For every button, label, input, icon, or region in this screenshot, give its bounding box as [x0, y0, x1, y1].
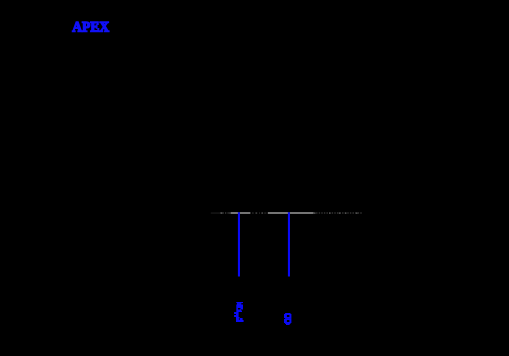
wire: bright segment 2 [268, 212, 314, 213]
wire: faint streak left [211, 213, 220, 214]
pin label 2 (blue "8") [284, 313, 291, 325]
wire: brighter specks on right dashed segment [314, 213, 358, 214]
wire: brighter specks on left dashed segment [221, 212, 222, 213]
wire: bright segment 1 [231, 212, 250, 213]
wire: dim dashed segment left [220, 212, 231, 214]
wire: blue vertical lead 1 [238, 212, 240, 276]
pin label 1 (rotated blue text) [234, 302, 244, 322]
wire: blue vertical lead 2 [288, 212, 290, 276]
wire: dim dashed segment right [314, 212, 363, 214]
svg-text:APEX: APEX [72, 19, 109, 36]
wire: dim dashed segment middle [252, 212, 266, 213]
